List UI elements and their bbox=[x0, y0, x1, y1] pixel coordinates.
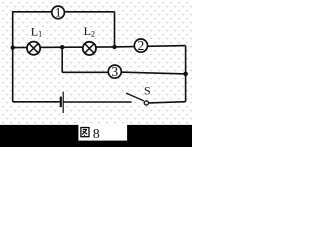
switch S: blade bbox=[126, 93, 144, 101]
battery: long thin positive plate bbox=[62, 92, 64, 113]
caption white box bbox=[78, 124, 127, 140]
wire: ammeter 3 row right segment bbox=[115, 72, 186, 74]
wire: left vertical side bbox=[12, 11, 14, 102]
caption character 图 (hand drawn) bbox=[81, 128, 89, 137]
caption black bar bbox=[0, 125, 192, 147]
dotted paper background bbox=[0, 0, 192, 147]
ammeter U3 (meter 3) circle bbox=[108, 65, 121, 78]
wire: middle row (lamps and ammeter 2) bbox=[13, 46, 186, 48]
lamp L2 circle bbox=[83, 42, 96, 55]
svg-text:8: 8 bbox=[93, 127, 100, 142]
svg-text:3: 3 bbox=[111, 64, 118, 79]
battery: short thick negative plate bbox=[60, 97, 62, 108]
wire: vertical from node A down to ammeter 3 row bbox=[61, 47, 63, 72]
junction node A between L1 and L2 bbox=[60, 45, 64, 49]
wire: bottom left to battery bbox=[13, 101, 60, 103]
ammeter U2 (meter 2) circle bbox=[134, 39, 147, 52]
wire: right vertical side bbox=[185, 46, 187, 102]
wire: ammeter 3 row left segment bbox=[62, 71, 115, 73]
wire: battery to switch bbox=[64, 101, 132, 103]
lamp L1 circle bbox=[27, 42, 40, 55]
wire: switch to bottom right corner bbox=[148, 102, 185, 103]
junction node B (top branch joins lamp row) bbox=[112, 45, 116, 49]
lamp L1 cross bbox=[29, 44, 38, 53]
svg-text:2: 2 bbox=[138, 38, 145, 53]
wire: vertical drop from top branch to node B bbox=[114, 12, 116, 47]
lamp L2 cross bbox=[85, 44, 94, 53]
ammeter U1 (meter 1) circle bbox=[52, 6, 65, 19]
wire: top branch horizontal bbox=[13, 11, 115, 13]
junction node at left (lamp row / left side) bbox=[11, 45, 15, 49]
junction node C (ammeter 3 row joins right side) bbox=[183, 72, 188, 77]
switch S: pivot circle bbox=[144, 101, 148, 105]
svg-text:1: 1 bbox=[55, 5, 62, 20]
svg-text:S: S bbox=[144, 83, 151, 97]
